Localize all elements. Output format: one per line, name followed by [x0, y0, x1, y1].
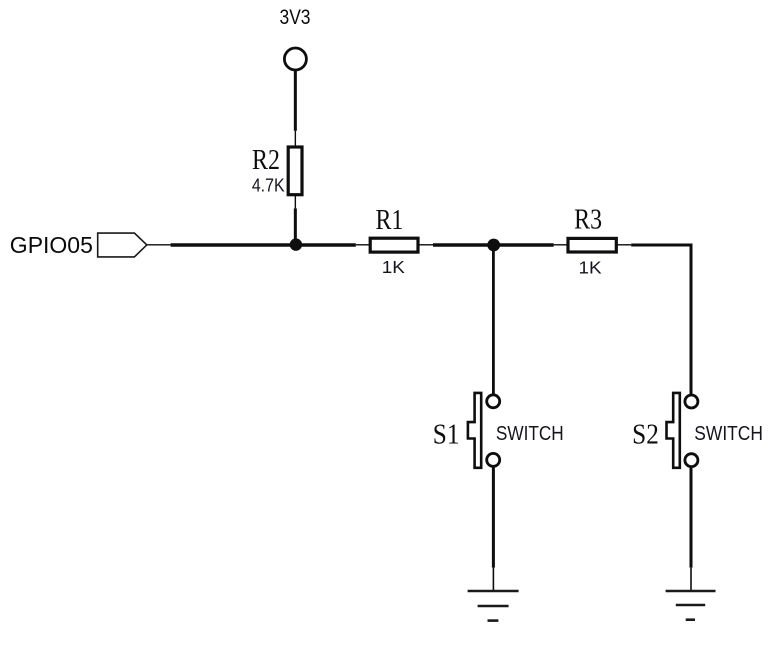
svg-text:4.7K: 4.7K: [252, 174, 285, 195]
junction node B: [487, 239, 500, 252]
wire R3 right then down to S2: [631, 245, 691, 395]
resistor R2 top pin: [294, 131, 296, 147]
switch S1 plunger: [468, 393, 481, 468]
resistor R1 body: [370, 238, 418, 252]
ground 2 symbol: [666, 591, 716, 620]
wire GPIO05 to R1: [171, 243, 356, 246]
ground 1 symbol: [468, 591, 519, 621]
lead from GPIO05 flag: [147, 244, 171, 246]
svg-text:1K: 1K: [382, 256, 406, 276]
wire from 3V3 circle down: [294, 70, 297, 131]
svg-text:S2: S2: [632, 418, 659, 450]
switch S1 bottom contact circle: [487, 453, 500, 466]
resistor R2 body: [288, 147, 302, 195]
svg-text:R1: R1: [375, 203, 403, 236]
svg-text:S1: S1: [433, 418, 460, 450]
wire S2 down: [690, 467, 693, 567]
wire R1 to node B: [433, 243, 554, 246]
ground 1 pin: [492, 568, 494, 591]
switch S2 plunger: [667, 393, 680, 468]
ground 2 pin: [690, 568, 692, 591]
svg-text:SWITCH: SWITCH: [496, 422, 564, 445]
resistor R1 right pin: [418, 244, 433, 246]
connector flag GPIO05: [98, 233, 147, 257]
switch S2 bottom contact circle: [685, 454, 698, 467]
resistor R3 right pin: [616, 244, 631, 246]
svg-text:R2: R2: [252, 143, 280, 176]
power symbol 3V3 circle: [284, 48, 306, 70]
svg-text:SWITCH: SWITCH: [694, 422, 763, 444]
resistor R3 body: [568, 238, 616, 252]
svg-text:1K: 1K: [578, 257, 602, 277]
wire R2 to node A: [294, 208, 297, 246]
switch S2 top contact circle: [685, 395, 698, 408]
svg-text:R3: R3: [574, 203, 602, 236]
switch S1 top contact circle: [487, 395, 500, 408]
wire node B down to S1: [492, 245, 495, 394]
resistor R2 bottom pin: [294, 195, 296, 209]
junction node A: [290, 238, 302, 250]
svg-text:3V3: 3V3: [280, 6, 311, 29]
svg-text:GPIO05: GPIO05: [10, 232, 93, 258]
resistor R3 left pin: [554, 244, 568, 246]
wire S1 down: [492, 467, 495, 568]
resistor R1 left pin: [356, 244, 370, 246]
